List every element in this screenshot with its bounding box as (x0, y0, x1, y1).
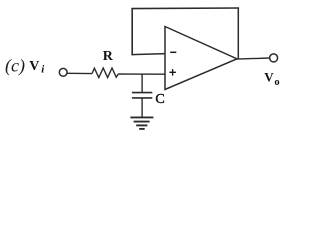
feedback wire right segment (237, 8, 239, 59)
feedback wire top segment (131, 7, 239, 10)
op-amp inverting input marker (170, 51, 176, 53)
ground (130, 117, 153, 128)
label Vo (264, 69, 279, 88)
svg-text:(c): (c) (5, 55, 25, 76)
label Vi (29, 59, 45, 76)
feedback wire left segment (131, 8, 133, 55)
node junction at capacitor tap (141, 74, 143, 92)
svg-text:V: V (29, 59, 39, 74)
output terminal Vo (270, 54, 278, 62)
resistor R (92, 68, 119, 78)
input terminal Vi (59, 68, 67, 76)
svg-text:R: R (103, 49, 114, 64)
output wire (237, 58, 270, 59)
svg-text:i: i (41, 63, 45, 75)
op-amp U1 (165, 27, 237, 90)
wire capacitor to ground (141, 98, 143, 117)
svg-text:C: C (155, 92, 164, 107)
wire resistor to op-amp plus input (119, 73, 166, 75)
svg-text:o: o (274, 77, 279, 88)
wire feedback to inverting input (132, 54, 166, 55)
op-amp non-inverting input marker (169, 69, 176, 76)
wire terminal to resistor (67, 72, 92, 74)
capacitor C plates (132, 93, 152, 98)
svg-text:V: V (264, 69, 274, 84)
